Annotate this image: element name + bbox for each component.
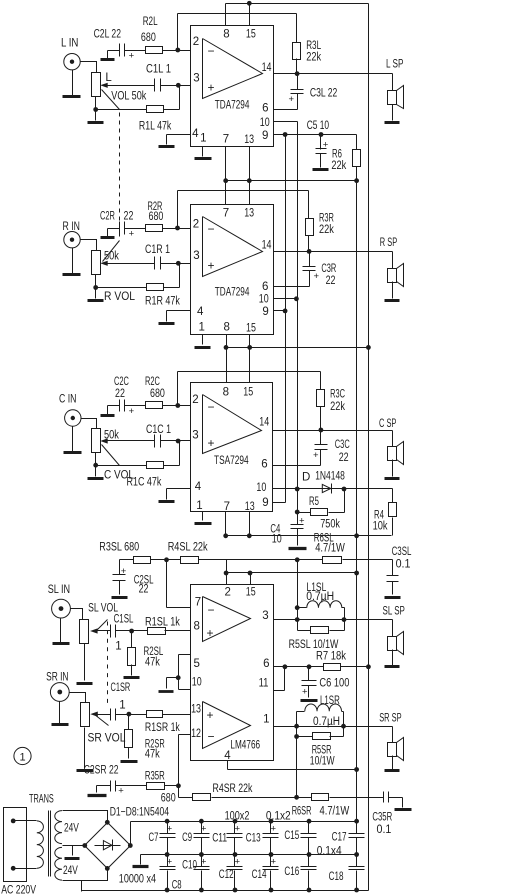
svg-text:C10: C10 — [182, 860, 197, 872]
svg-text:C1SL: C1SL — [114, 614, 134, 626]
svg-text:+: + — [271, 856, 277, 867]
svg-text:R6SR: R6SR — [292, 806, 312, 818]
svg-text:+: + — [313, 450, 319, 461]
svg-text:22k: 22k — [319, 224, 334, 236]
svg-text:C2C: C2C — [114, 376, 129, 388]
svg-text:AC 220V: AC 220V — [1, 885, 36, 895]
svg-text:22: 22 — [124, 211, 134, 223]
svg-text:C2R: C2R — [100, 211, 115, 223]
svg-text:9: 9 — [262, 130, 268, 142]
svg-text:4: 4 — [192, 128, 199, 140]
svg-text:TDA7294: TDA7294 — [215, 287, 250, 299]
svg-text:+: + — [129, 51, 135, 62]
svg-text:15: 15 — [246, 587, 256, 599]
svg-text:9: 9 — [262, 497, 268, 509]
svg-text:C2L 22: C2L 22 — [94, 29, 121, 41]
svg-text:R4SL 22k: R4SL 22k — [168, 542, 208, 554]
svg-text:R7 18k: R7 18k — [316, 651, 346, 663]
svg-text:+: + — [207, 626, 214, 640]
svg-text:TDA7294: TDA7294 — [215, 99, 250, 111]
svg-text:22k: 22k — [306, 52, 321, 64]
svg-text:R1R 47k: R1R 47k — [145, 296, 180, 308]
svg-text:C3L 22: C3L 22 — [310, 88, 337, 100]
svg-text:4.7/1W: 4.7/1W — [315, 543, 345, 555]
svg-text:C1L 1: C1L 1 — [146, 64, 171, 76]
svg-text:10: 10 — [192, 676, 202, 688]
svg-text:0.1: 0.1 — [396, 559, 411, 571]
svg-text:R4SR 22k: R4SR 22k — [213, 783, 253, 795]
svg-text:+: + — [129, 229, 135, 240]
svg-text:SR IN: SR IN — [46, 672, 68, 684]
svg-text:3: 3 — [193, 73, 199, 85]
svg-text:C6 100: C6 100 — [319, 678, 349, 690]
svg-text:9: 9 — [262, 306, 268, 318]
svg-text:22: 22 — [139, 584, 149, 596]
svg-text:3: 3 — [192, 430, 198, 442]
svg-text:50k: 50k — [104, 251, 119, 263]
svg-text:3: 3 — [193, 250, 199, 262]
svg-text:+: + — [289, 94, 295, 105]
svg-text:13: 13 — [245, 501, 255, 513]
svg-text:+: + — [129, 406, 135, 417]
svg-text:+: + — [314, 271, 320, 282]
svg-text:+: + — [118, 786, 124, 797]
svg-text:TRANS: TRANS — [29, 794, 54, 806]
svg-text:C1SR: C1SR — [111, 682, 131, 694]
svg-text:L SP: L SP — [386, 59, 404, 71]
svg-text:2: 2 — [225, 587, 231, 599]
svg-text:15: 15 — [243, 386, 253, 398]
svg-text:24V: 24V — [63, 865, 78, 877]
svg-text:C14: C14 — [252, 869, 267, 881]
svg-text:−: − — [208, 400, 215, 414]
svg-text:8: 8 — [223, 386, 229, 398]
svg-text:C1R 1: C1R 1 — [145, 244, 170, 256]
svg-text:C7: C7 — [149, 832, 159, 844]
svg-text:+: + — [208, 81, 215, 95]
svg-text:+: + — [302, 687, 308, 698]
svg-text:VOL 50k: VOL 50k — [111, 91, 146, 103]
svg-text:C8: C8 — [172, 879, 182, 891]
svg-text:−: − — [208, 730, 215, 744]
svg-text:4.7/1W: 4.7/1W — [320, 806, 350, 818]
svg-text:+: + — [121, 566, 127, 577]
svg-text:R2L: R2L — [143, 16, 158, 28]
svg-text:7: 7 — [224, 501, 230, 513]
svg-text:−: − — [208, 222, 215, 236]
svg-text:R1SL 1k: R1SL 1k — [145, 617, 180, 629]
svg-text:C18: C18 — [329, 871, 344, 883]
svg-text:11: 11 — [259, 678, 269, 690]
svg-text:R3SL 680: R3SL 680 — [99, 542, 139, 554]
svg-text:10: 10 — [259, 294, 269, 306]
svg-text:R1L 47k: R1L 47k — [139, 121, 171, 133]
svg-text:47k: 47k — [145, 657, 160, 669]
svg-text:6: 6 — [261, 459, 267, 471]
svg-text:C5 10: C5 10 — [307, 120, 329, 132]
svg-text:680: 680 — [161, 793, 176, 805]
svg-text:SL IN: SL IN — [48, 584, 70, 596]
svg-text:7: 7 — [195, 597, 201, 609]
svg-text:14: 14 — [262, 62, 272, 74]
svg-text:1: 1 — [196, 500, 202, 512]
svg-text:+: + — [208, 259, 215, 273]
svg-text:22: 22 — [326, 275, 336, 287]
svg-text:6: 6 — [262, 102, 268, 114]
svg-text:0.1x4: 0.1x4 — [317, 846, 342, 858]
svg-text:SL SP: SL SP — [383, 606, 406, 618]
svg-text:1: 1 — [115, 641, 121, 653]
svg-text:22k: 22k — [330, 401, 345, 413]
svg-text:TSA7294: TSA7294 — [214, 455, 249, 467]
svg-text:10: 10 — [256, 482, 266, 494]
svg-text:15: 15 — [246, 322, 256, 334]
svg-text:2: 2 — [193, 219, 199, 231]
svg-text:1: 1 — [119, 700, 125, 712]
svg-text:680: 680 — [149, 211, 164, 223]
svg-text:10/1W: 10/1W — [310, 756, 335, 768]
svg-text:13: 13 — [244, 208, 254, 220]
svg-text:1N4148: 1N4148 — [315, 471, 345, 483]
svg-text:750k: 750k — [320, 519, 340, 531]
svg-text:10k: 10k — [373, 521, 388, 533]
svg-text:6: 6 — [262, 281, 268, 293]
svg-text:R3L: R3L — [306, 40, 321, 52]
svg-text:C IN: C IN — [59, 394, 76, 406]
svg-text:8: 8 — [194, 620, 200, 632]
svg-text:47k: 47k — [145, 749, 160, 761]
svg-text:6: 6 — [263, 658, 269, 670]
svg-text:2: 2 — [193, 36, 199, 48]
svg-text:7: 7 — [223, 134, 229, 146]
svg-text:R6: R6 — [332, 149, 342, 161]
svg-text:22k: 22k — [331, 160, 346, 172]
svg-text:4: 4 — [195, 481, 202, 493]
svg-text:680: 680 — [150, 388, 165, 400]
svg-text:2: 2 — [192, 394, 198, 406]
svg-text:C SP: C SP — [379, 418, 397, 430]
svg-text:+: + — [167, 856, 173, 867]
svg-text:R SP: R SP — [380, 237, 398, 249]
svg-text:R3R: R3R — [319, 213, 334, 225]
svg-text:+: + — [208, 436, 215, 450]
svg-text:L: L — [105, 72, 112, 84]
svg-text:C1C 1: C1C 1 — [146, 424, 171, 436]
svg-text:C15: C15 — [284, 830, 299, 842]
svg-text:0.1x2: 0.1x2 — [266, 810, 291, 822]
svg-text:+: + — [167, 824, 173, 835]
svg-text:−: − — [208, 44, 215, 58]
svg-text:+: + — [207, 708, 214, 722]
svg-text:C3SL: C3SL — [392, 546, 412, 558]
svg-text:1: 1 — [200, 132, 206, 144]
svg-text:680: 680 — [141, 32, 156, 44]
svg-text:13: 13 — [191, 703, 201, 715]
svg-text:10: 10 — [260, 117, 270, 129]
svg-text:10000 x4: 10000 x4 — [119, 874, 157, 886]
svg-text:3: 3 — [262, 610, 268, 622]
svg-text:+: + — [323, 140, 329, 151]
svg-text:100x2: 100x2 — [225, 810, 250, 822]
svg-text:R5: R5 — [309, 496, 319, 508]
svg-text:15: 15 — [246, 29, 256, 41]
svg-text:+: + — [271, 824, 277, 835]
svg-text:C17: C17 — [332, 832, 347, 844]
svg-text:+: + — [235, 824, 241, 835]
svg-text:C13: C13 — [246, 833, 261, 845]
svg-text:22: 22 — [115, 388, 125, 400]
svg-text:R1SR 1k: R1SR 1k — [145, 722, 180, 734]
svg-text:12: 12 — [191, 728, 201, 740]
svg-text:C35R: C35R — [372, 812, 392, 824]
svg-text:8: 8 — [223, 29, 229, 41]
svg-text:1: 1 — [19, 752, 25, 764]
svg-text:SR VOL: SR VOL — [88, 733, 127, 745]
svg-text:50k: 50k — [104, 430, 119, 442]
svg-text:C2SR 22: C2SR 22 — [84, 765, 119, 777]
svg-text:14: 14 — [262, 239, 272, 251]
svg-text:C16: C16 — [284, 866, 299, 878]
svg-text:C3R: C3R — [321, 263, 336, 275]
svg-text:R VOL: R VOL — [104, 291, 136, 303]
svg-text:7: 7 — [223, 208, 229, 220]
svg-text:0.7µH: 0.7µH — [306, 591, 334, 603]
svg-text:+: + — [201, 824, 207, 835]
svg-text:1: 1 — [199, 322, 205, 334]
svg-text:+: + — [201, 856, 207, 867]
svg-text:R2C: R2C — [145, 376, 160, 388]
svg-text:8: 8 — [224, 322, 230, 334]
svg-text:LM4766: LM4766 — [230, 740, 260, 752]
svg-text:SR SP: SR SP — [379, 713, 402, 725]
svg-text:4: 4 — [197, 306, 204, 318]
svg-text:C3C: C3C — [335, 439, 350, 451]
svg-text:24V: 24V — [64, 823, 79, 835]
svg-text:D: D — [302, 472, 310, 484]
svg-text:0.1: 0.1 — [377, 824, 392, 836]
svg-text:13: 13 — [244, 134, 254, 146]
svg-text:R1C 47k: R1C 47k — [127, 477, 162, 489]
svg-text:5: 5 — [194, 658, 200, 670]
svg-text:C12: C12 — [219, 869, 234, 881]
svg-text:0.7µH: 0.7µH — [313, 716, 340, 728]
svg-text:D1−D8:1N5404: D1−D8:1N5404 — [110, 807, 170, 819]
svg-text:L1SR: L1SR — [320, 695, 340, 707]
svg-text:R35R: R35R — [145, 771, 165, 783]
svg-text:C11: C11 — [212, 833, 227, 845]
svg-text:R3C: R3C — [330, 389, 345, 401]
svg-text:SL VOL: SL VOL — [88, 602, 118, 614]
svg-text:+: + — [235, 856, 241, 867]
svg-text:14: 14 — [259, 417, 269, 429]
svg-text:22: 22 — [339, 452, 349, 464]
svg-text:C9: C9 — [182, 832, 192, 844]
svg-text:1: 1 — [263, 713, 269, 725]
svg-text:L IN: L IN — [61, 38, 78, 50]
svg-text:R5SL 10/1W: R5SL 10/1W — [289, 639, 339, 651]
svg-text:+: + — [299, 516, 305, 527]
svg-text:−: − — [208, 603, 215, 617]
svg-text:4: 4 — [224, 750, 231, 762]
